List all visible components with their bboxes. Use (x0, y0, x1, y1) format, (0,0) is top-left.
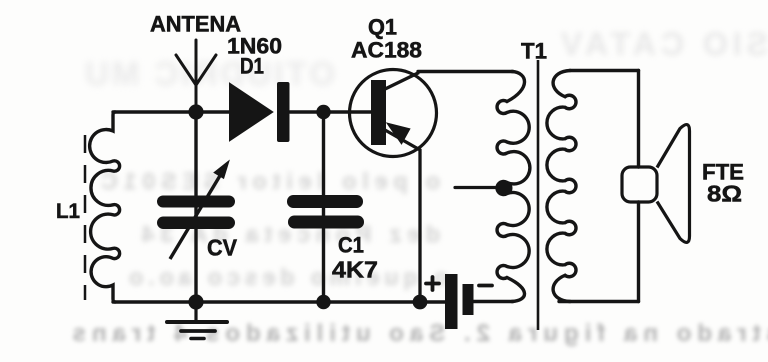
node emitter-battery junction (413, 295, 428, 310)
ghost bleed-through faint top-left smudge (0, 55, 335, 93)
svg-text:L1: L1 (56, 200, 80, 223)
ghost bleed-through text row top-right (474, 26, 768, 63)
speaker FTE driver box (622, 167, 657, 202)
wire top-left rail L1 to antenna to diode (113, 110, 230, 113)
svg-text:AC188: AC188 (351, 38, 422, 63)
wire diode cathode to C1 node to Q1 base (290, 110, 371, 113)
L1 core dashed line (84, 135, 87, 300)
diode D1 (230, 84, 272, 140)
inductor L1 (90, 112, 120, 302)
node C1 bottom junction (316, 295, 330, 309)
svg-text:D1: D1 (240, 54, 264, 79)
ghost text row B (30, 168, 440, 195)
wire C1 branch vertical (322, 112, 325, 302)
svg-text:ANTENA: ANTENA (150, 12, 241, 37)
wire collector rail to T1 primary top (418, 70, 513, 73)
svg-text:CV: CV (207, 235, 238, 261)
ghost text row D (52, 264, 448, 291)
transistor Q1 circle (350, 70, 437, 157)
wire bottom rail battery to T1 primary (473, 300, 513, 303)
node T1 tap junction (498, 181, 513, 196)
capacitor C1 plates (287, 195, 363, 208)
Q1 collector lead (383, 73, 419, 91)
T1 primary winding (497, 72, 530, 302)
wire CV branch vertical (194, 112, 197, 302)
svg-text:8Ω: 8Ω (707, 181, 742, 207)
transformer T1 core (537, 60, 540, 330)
battery positive plate (445, 274, 458, 329)
battery negative plate (463, 284, 474, 315)
svg-text:Q1: Q1 (368, 15, 397, 40)
T1 primary tap wire (455, 186, 505, 189)
svg-text:4K7: 4K7 (332, 257, 378, 283)
Q1 emitter arrow (PNP) (388, 124, 410, 144)
antenna (176, 40, 216, 112)
node ground junction (188, 294, 203, 309)
T1 secondary winding (547, 71, 576, 302)
wire speaker vertical bottom (637, 202, 640, 302)
CV arrow (170, 162, 229, 260)
wire speaker vertical top (637, 71, 640, 168)
Q1 base bar (371, 80, 386, 145)
label - (479, 284, 492, 288)
ground (167, 302, 227, 339)
wire T1 secondary bottom to speaker (559, 300, 639, 303)
ghost text row C (36, 221, 440, 248)
wire bottom rail left (113, 300, 445, 303)
node diode-C1-base junction (316, 105, 330, 119)
label + (426, 277, 439, 290)
svg-text:C1: C1 (338, 233, 364, 258)
variable capacitor CV plates (157, 196, 235, 208)
Q1 emitter lead (385, 130, 420, 302)
ghost text row bottom (0, 320, 768, 348)
speaker cone (657, 125, 690, 243)
svg-text:T1: T1 (521, 39, 547, 64)
wire T1 secondary top to speaker (570, 69, 639, 72)
node antenna junction (188, 104, 203, 119)
